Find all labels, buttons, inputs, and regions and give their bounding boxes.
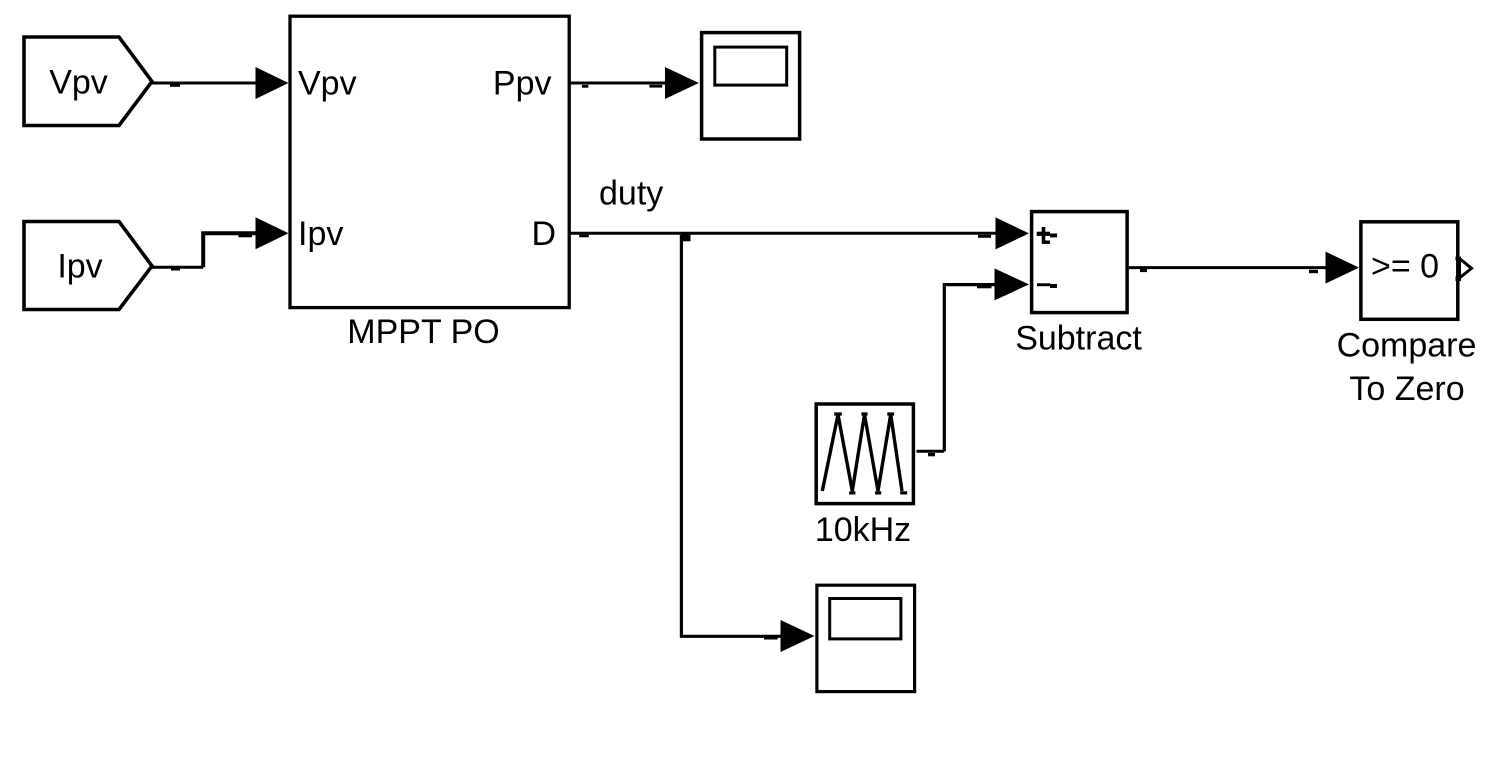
svg-text:>= 0: >= 0 xyxy=(1371,248,1439,286)
svg-text:D: D xyxy=(531,215,556,253)
svg-text:MPPT PO: MPPT PO xyxy=(347,313,499,351)
svg-text:Ipv: Ipv xyxy=(298,215,343,253)
svg-text:Vpv: Vpv xyxy=(49,64,108,102)
svg-text:Ppv: Ppv xyxy=(493,65,552,103)
svg-text:Subtract: Subtract xyxy=(1015,320,1142,358)
svg-text:Compare: Compare xyxy=(1337,327,1477,365)
svg-text:To Zero: To Zero xyxy=(1349,370,1464,408)
svg-text:10kHz: 10kHz xyxy=(815,511,911,549)
svg-text:Vpv: Vpv xyxy=(298,65,357,103)
svg-text:duty: duty xyxy=(599,174,663,212)
svg-text:Ipv: Ipv xyxy=(57,248,102,286)
